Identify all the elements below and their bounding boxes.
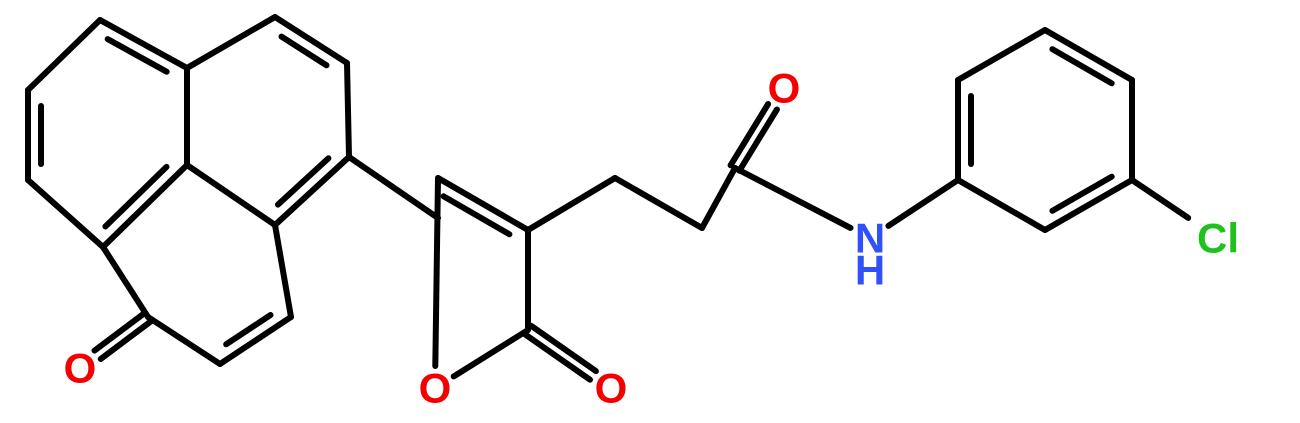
svg-text:H: H <box>855 247 885 294</box>
svg-text:O: O <box>595 365 628 412</box>
svg-text:Cl: Cl <box>1197 215 1239 262</box>
svg-text:O: O <box>64 345 97 392</box>
svg-text:O: O <box>419 365 452 412</box>
svg-text:O: O <box>768 65 801 112</box>
